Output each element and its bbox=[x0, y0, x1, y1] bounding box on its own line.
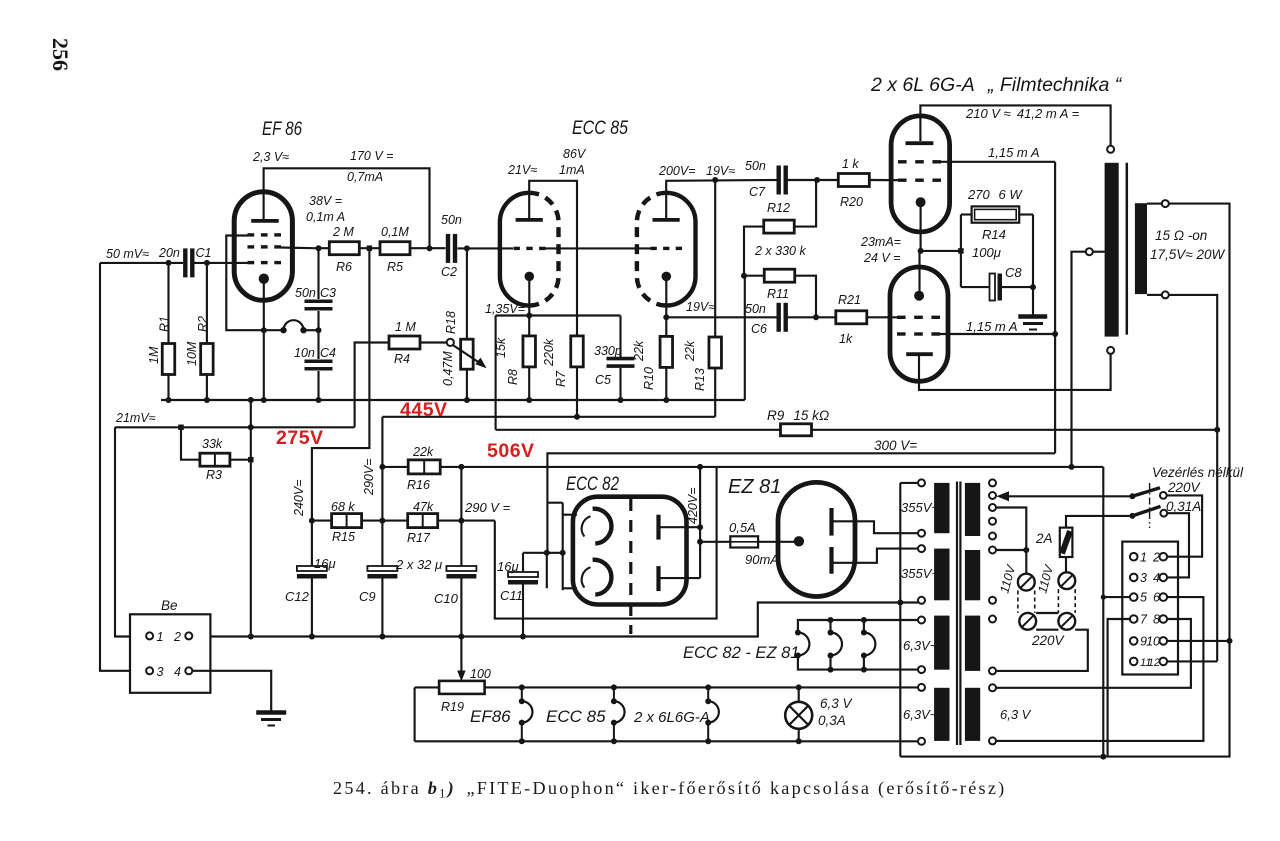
wire R5 to C2 bbox=[410, 247, 446, 249]
Be pin 4 bbox=[185, 667, 192, 674]
svg-text:1: 1 bbox=[157, 630, 164, 644]
svg-text:ECC 82 - EZ 81: ECC 82 - EZ 81 bbox=[683, 644, 799, 662]
svg-text:24 V =: 24 V = bbox=[863, 251, 901, 265]
svg-text:275V: 275V bbox=[276, 427, 324, 449]
svg-text:256: 256 bbox=[48, 38, 73, 71]
heater hook ECC82 bbox=[795, 630, 801, 636]
wire driver heater rail top bbox=[798, 620, 918, 633]
svg-text:2 x 6L 6G-A „ Filmtechnika “: 2 x 6L 6G-A „ Filmtechnika “ bbox=[870, 74, 1123, 96]
svg-text:170 V =: 170 V = bbox=[350, 149, 393, 163]
resistor R17 47k bbox=[382, 520, 408, 522]
wire input down to Be pin3 bbox=[100, 263, 146, 671]
svg-text:ECC 82: ECC 82 bbox=[566, 474, 619, 495]
svg-text:2 x 330 k: 2 x 330 k bbox=[754, 244, 806, 258]
6L6 lower g2 wire bbox=[936, 333, 1055, 335]
ECC85 left anode bbox=[516, 218, 543, 222]
svg-text:1,15 m A: 1,15 m A bbox=[966, 319, 1018, 334]
transformer OT secondary winding bbox=[1135, 203, 1147, 294]
ground at C8 bbox=[1032, 287, 1034, 314]
svg-text:50n: 50n bbox=[745, 302, 766, 316]
svg-text:C10: C10 bbox=[434, 591, 459, 606]
svg-text:220V: 220V bbox=[1167, 480, 1202, 495]
ECC85 right anode wire bbox=[666, 180, 777, 218]
voltage selector plugs lower 220V bbox=[1019, 613, 1036, 630]
wire R11 right to C6 node bbox=[795, 276, 816, 318]
ECC82 lower cathode arc bbox=[593, 560, 612, 595]
transformer PT secondary bars bbox=[934, 483, 949, 533]
resistor R13 22k bbox=[709, 337, 722, 368]
wire ECC85 right cathode node bbox=[666, 316, 777, 318]
EZ81 upper plate bbox=[829, 508, 833, 536]
wire R12 left bbox=[744, 227, 764, 276]
EZ81 lower plate bbox=[829, 547, 833, 574]
tube 6L6 lower (inverted) bbox=[890, 267, 948, 381]
svg-text:C1: C1 bbox=[196, 246, 212, 260]
wire 19V node down to R13 bbox=[714, 180, 716, 336]
wire 300V to grid bracket bbox=[547, 502, 563, 504]
OT secondary bottom terminal bbox=[1147, 294, 1162, 296]
OT primary bottom terminal bbox=[1107, 347, 1114, 354]
tube 6L6 upper bbox=[891, 116, 950, 232]
resistor R21 1k bbox=[836, 311, 867, 324]
svg-text:290 V =: 290 V = bbox=[464, 500, 511, 515]
6L6 upper anode lead to transformer bbox=[920, 105, 1110, 145]
resistor R6 2M bbox=[329, 242, 359, 255]
6L6 lower g1 dashes bbox=[897, 316, 906, 319]
svg-text:10M: 10M bbox=[185, 341, 199, 366]
OT secondary top terminal bbox=[1147, 203, 1162, 205]
switch mains upper pole bbox=[1129, 493, 1135, 499]
svg-text:220V: 220V bbox=[1031, 633, 1066, 648]
R14 C8 loop rails bbox=[960, 215, 962, 288]
ECC82 upper cathode arc bbox=[593, 509, 612, 544]
svg-text:EF 86: EF 86 bbox=[262, 119, 302, 140]
svg-text:C2: C2 bbox=[441, 265, 457, 279]
wire input to C1 bbox=[100, 262, 183, 264]
PT left tap terminals bbox=[918, 479, 925, 486]
wire secondary top to terminal 10 bbox=[900, 204, 1229, 757]
EF86 g2 wire to R6 bbox=[281, 246, 314, 249]
svg-text:2: 2 bbox=[173, 630, 181, 644]
svg-text:210 V ≈ 41,2 m A =: 210 V ≈ 41,2 m A = bbox=[965, 106, 1080, 121]
terminal 9 10 bbox=[1130, 637, 1138, 645]
svg-text:R12: R12 bbox=[767, 201, 790, 215]
wire R16-R17 junction vertical bbox=[460, 467, 462, 567]
capacitor C7 50n bbox=[777, 166, 781, 195]
resistor R16 22k bbox=[382, 466, 408, 468]
switch mains lower pole bbox=[1129, 513, 1135, 519]
wire R21 to lower 6L6 grid bbox=[867, 316, 903, 318]
ECC85 right grid dashes bbox=[651, 247, 657, 250]
svg-text:R13: R13 bbox=[693, 368, 707, 391]
svg-text:R10: R10 bbox=[642, 367, 656, 390]
tube EF86 bbox=[234, 192, 292, 300]
wire R9 feed from cathode node bbox=[495, 316, 497, 430]
Be pin 2 bbox=[185, 632, 192, 639]
svg-text:R3: R3 bbox=[206, 468, 222, 482]
wire OT center tap to supply bbox=[1072, 252, 1086, 467]
wire C7 to R20 bbox=[788, 179, 839, 181]
svg-text:22k: 22k bbox=[683, 340, 697, 362]
svg-text:90mA: 90mA bbox=[745, 552, 779, 567]
svg-text:2: 2 bbox=[1152, 550, 1160, 564]
heater hook EF86 bbox=[519, 684, 525, 690]
svg-text:R14: R14 bbox=[982, 227, 1006, 242]
svg-text:355V~: 355V~ bbox=[901, 500, 939, 515]
terminal 11 12 bbox=[1130, 658, 1138, 666]
EZ81 cathode dot bbox=[794, 536, 804, 546]
capacitor C3 50n bbox=[317, 248, 319, 299]
svg-text:C6: C6 bbox=[751, 322, 767, 336]
svg-text:445V: 445V bbox=[400, 399, 448, 421]
wire terminal 6 to 6.3V tap bbox=[996, 597, 1203, 741]
wire bus riser to R11 R12 bbox=[744, 276, 746, 400]
svg-text:200V=: 200V= bbox=[658, 164, 696, 178]
svg-text:38V =: 38V = bbox=[309, 194, 342, 208]
svg-text:C11: C11 bbox=[500, 588, 523, 603]
svg-text:C12: C12 bbox=[285, 589, 310, 604]
resistor R1 1M bbox=[167, 263, 169, 344]
wire EZ81 lower plate to 355V tap bbox=[834, 549, 919, 563]
ECC85 right cathode bbox=[662, 272, 672, 282]
capacitor C10 32u bbox=[446, 566, 476, 571]
svg-text:0,7mA: 0,7mA bbox=[347, 170, 383, 184]
svg-text:R1: R1 bbox=[158, 316, 172, 332]
wire selector return to 6.3V tap bbox=[996, 630, 1088, 671]
wire terminal 8 to 6.3V tap bbox=[996, 619, 1191, 688]
fuse 0.5A bbox=[700, 541, 730, 543]
svg-text:ECC 85: ECC 85 bbox=[572, 118, 628, 139]
wire down to Be pin1 bbox=[115, 427, 146, 636]
svg-text:R18: R18 bbox=[444, 311, 458, 334]
svg-text:EZ 81: EZ 81 bbox=[728, 476, 781, 498]
svg-text:50 mV≈: 50 mV≈ bbox=[106, 247, 149, 261]
6L6 upper cathode bbox=[916, 197, 926, 207]
svg-text:254. ábra b1) „FITE-Duophon“: 254. ábra b1) „FITE-Duophon“ iker-főerős… bbox=[333, 778, 1006, 801]
svg-text:2,3 V≈: 2,3 V≈ bbox=[252, 150, 289, 164]
wire cathodes junction bbox=[921, 250, 961, 252]
OT primary top terminal bbox=[1107, 146, 1114, 153]
svg-text:300 V=: 300 V= bbox=[874, 438, 917, 453]
svg-text:16μ: 16μ bbox=[314, 556, 336, 571]
capacitor C4 10n bbox=[317, 330, 319, 359]
svg-text:100μ: 100μ bbox=[972, 245, 1001, 260]
wire R4 left to 275V line bbox=[355, 343, 390, 428]
wire R20 to 6L6 grid bbox=[869, 179, 903, 181]
EF86 grid g2 dashes bbox=[248, 245, 255, 248]
EF86 grid g1 dashes bbox=[248, 261, 255, 264]
svg-text:6: 6 bbox=[1153, 591, 1160, 605]
svg-text:240V=: 240V= bbox=[292, 480, 306, 518]
terminal 1 2 bbox=[1130, 553, 1138, 561]
svg-text:2 x 32 μ: 2 x 32 μ bbox=[395, 557, 442, 572]
svg-text:4: 4 bbox=[174, 665, 181, 679]
svg-text:270 6 W: 270 6 W bbox=[967, 187, 1023, 202]
svg-text:20n: 20n bbox=[158, 246, 180, 260]
EF86 anode bbox=[251, 219, 279, 223]
wire Be pin4 to ground bbox=[192, 671, 271, 711]
svg-text:12: 12 bbox=[1148, 657, 1160, 669]
svg-text:420V=: 420V= bbox=[686, 488, 700, 525]
svg-text:10n: 10n bbox=[294, 346, 315, 360]
fuse 2A bbox=[1060, 528, 1073, 557]
svg-text:1 M: 1 M bbox=[395, 320, 416, 334]
wire 220V switch to terminal 2 bbox=[1167, 495, 1202, 556]
svg-text:330p: 330p bbox=[594, 344, 622, 358]
resistor R10 22k bbox=[665, 317, 667, 336]
svg-text:50n: 50n bbox=[745, 159, 766, 173]
capacitor C12 16u bbox=[311, 521, 313, 567]
resistor R4 1M bbox=[389, 336, 420, 349]
6L6 upper g2 dashes bbox=[898, 160, 907, 163]
svg-text:8: 8 bbox=[1153, 613, 1160, 627]
svg-text:6,3 V: 6,3 V bbox=[1000, 707, 1032, 722]
wire R11 left bbox=[744, 275, 764, 277]
svg-text:C7: C7 bbox=[749, 185, 766, 199]
svg-text:50n: 50n bbox=[295, 286, 316, 300]
svg-text:1M: 1M bbox=[147, 346, 161, 364]
capacitor C1 20n bbox=[183, 248, 187, 277]
wire 445V rail down to R16 R17 C9 bbox=[381, 417, 383, 567]
svg-text:355V~: 355V~ bbox=[901, 566, 939, 581]
svg-text:EF86: EF86 bbox=[470, 707, 511, 726]
capacitor C8 100u bbox=[961, 286, 990, 288]
svg-text:506V: 506V bbox=[487, 440, 535, 462]
svg-text:1 k: 1 k bbox=[842, 157, 859, 171]
svg-text:1,35V=: 1,35V= bbox=[485, 302, 525, 316]
svg-text:21V≈: 21V≈ bbox=[507, 163, 537, 177]
wire heater loop left bbox=[414, 687, 416, 741]
wire R4 to R18 wiper bbox=[420, 341, 447, 343]
svg-text:0,1m A: 0,1m A bbox=[306, 210, 345, 224]
resistor R5 0.1M bbox=[380, 242, 410, 255]
svg-text:6,3 V: 6,3 V bbox=[820, 696, 854, 711]
R19 wiper arrow bbox=[460, 637, 462, 674]
transformer OT primary winding bbox=[1105, 163, 1119, 337]
svg-text:0,3A: 0,3A bbox=[818, 713, 846, 728]
svg-text:R7: R7 bbox=[554, 370, 568, 387]
ECC85 left anode wire to R7 bbox=[529, 181, 577, 336]
wire EZ81 upper plate to 355V tap bbox=[834, 521, 919, 533]
ECC85 left grid dashes bbox=[514, 247, 520, 250]
tube EZ81 bbox=[778, 482, 855, 596]
resistor R15 68k bbox=[312, 520, 332, 522]
capacitor C9 32u bbox=[367, 566, 397, 571]
svg-text:21mV≈: 21mV≈ bbox=[115, 411, 156, 425]
svg-text:R15: R15 bbox=[332, 530, 355, 544]
capacitor C2 50n bbox=[446, 234, 450, 263]
wire terminal 5 to box edge bbox=[1103, 596, 1130, 598]
wire terminal 12 to feedback line bbox=[1167, 660, 1217, 662]
6L6 lower anode bbox=[906, 352, 933, 356]
svg-text:3: 3 bbox=[1140, 571, 1147, 585]
resistor R7 220k bbox=[571, 336, 584, 367]
Be pin 1 bbox=[146, 632, 153, 639]
wire ECC85 left cathode node bbox=[496, 314, 621, 316]
terminal 5 6 bbox=[1130, 593, 1138, 601]
svg-text:19V≈: 19V≈ bbox=[706, 164, 735, 178]
wire heater rail bottom bbox=[415, 740, 918, 742]
OT primary center tap bbox=[1086, 248, 1093, 255]
svg-text:68 k: 68 k bbox=[331, 500, 355, 514]
wire 290V feed from R6-R5 junction bbox=[312, 248, 370, 520]
svg-text:10: 10 bbox=[1146, 635, 1160, 649]
6L6 lower g2 dashes bbox=[897, 332, 906, 335]
terminal 7 8 bbox=[1130, 615, 1138, 623]
EF86 g3 left frame wire bbox=[226, 236, 263, 331]
heater hook third bbox=[863, 620, 865, 633]
capacitor C11 16u bbox=[523, 552, 547, 554]
svg-text:86V: 86V bbox=[563, 147, 587, 161]
wire ECC85 grids link bbox=[546, 247, 651, 249]
EF86 cathode bbox=[259, 274, 269, 284]
resistor R14 270 6W bbox=[961, 213, 972, 215]
svg-text:22k: 22k bbox=[632, 340, 646, 362]
resistor R3 33k bbox=[181, 427, 200, 459]
svg-text:C3: C3 bbox=[320, 286, 336, 300]
capacitor C5 330p bbox=[619, 316, 621, 358]
svg-text:50n: 50n bbox=[441, 213, 462, 227]
svg-text:Be: Be bbox=[161, 598, 178, 613]
resistor R8 15k bbox=[528, 316, 530, 337]
svg-text:R8: R8 bbox=[506, 369, 520, 385]
wire C6 to R21 bbox=[788, 316, 836, 318]
ECC85 left cathode bbox=[525, 272, 535, 282]
wire lower ground bus bbox=[192, 603, 918, 637]
svg-text:C8: C8 bbox=[1005, 265, 1022, 280]
ECC82 lower anode bar bbox=[656, 566, 660, 591]
wire supply box right edge bbox=[1102, 467, 1104, 757]
svg-text:6,3V~: 6,3V~ bbox=[903, 707, 938, 722]
voltage selector plug upper 110V bbox=[1018, 574, 1035, 591]
svg-text:C9: C9 bbox=[359, 589, 376, 604]
wire ground bus bbox=[161, 399, 745, 401]
tube ECC85 left triode bbox=[500, 193, 529, 306]
connector Be bbox=[130, 614, 210, 693]
transformer PT core bbox=[956, 482, 958, 746]
svg-text:47k: 47k bbox=[413, 500, 434, 514]
svg-text:5: 5 bbox=[1140, 591, 1147, 605]
wire 21mV line bbox=[115, 426, 355, 428]
EF86 grid g3 dashes bbox=[248, 233, 255, 236]
6L6 upper anode bbox=[906, 141, 934, 145]
ground symbol bbox=[256, 710, 286, 715]
transformer OT core bbox=[1126, 163, 1129, 335]
6L6 lower anode lead to transformer bbox=[919, 355, 1111, 390]
resistor R2 10M bbox=[206, 263, 208, 344]
terminal strip box bbox=[1122, 542, 1178, 675]
ECC82 shield dashed bbox=[629, 499, 632, 634]
svg-text:C4: C4 bbox=[320, 346, 336, 360]
wire 0.31A switch to terminal 4 bbox=[1167, 513, 1189, 577]
svg-text:2 x 6L6G-A: 2 x 6L6G-A bbox=[633, 709, 710, 726]
resistor R9 15k bbox=[496, 429, 781, 431]
cathode link arc bbox=[264, 329, 284, 331]
wire 445V rail bbox=[382, 416, 715, 418]
svg-text:R11: R11 bbox=[767, 287, 789, 301]
transformer PT primary bars bbox=[965, 483, 980, 536]
resistor R12 330k bbox=[764, 220, 795, 233]
pilot lamp 6.3V 0.3A bbox=[798, 687, 800, 702]
svg-text:1,15 m A: 1,15 m A bbox=[988, 145, 1040, 160]
wire vertical bus-to-lower-bus at x251 bbox=[250, 400, 252, 637]
svg-text:19V≈: 19V≈ bbox=[686, 300, 715, 314]
potentiometer R18 0.47M bbox=[447, 339, 454, 346]
svg-text:23mA=: 23mA= bbox=[860, 235, 901, 249]
ECC82 grid bracket bbox=[562, 503, 564, 591]
svg-text:4: 4 bbox=[1153, 571, 1160, 585]
svg-text:R2: R2 bbox=[196, 316, 210, 332]
selector dashed links bbox=[1017, 591, 1019, 613]
wire R12 right to C7 node bbox=[794, 180, 816, 227]
heater hook ECC85 bbox=[611, 684, 617, 690]
wire heater rail top bbox=[415, 686, 440, 688]
ECC85 right anode bbox=[653, 218, 680, 222]
capacitor C6 50n bbox=[777, 303, 781, 332]
svg-text:0,31A: 0,31A bbox=[1166, 499, 1201, 514]
svg-text:1k: 1k bbox=[839, 332, 853, 346]
switch link dash-dot bbox=[1149, 483, 1151, 528]
svg-text:R6: R6 bbox=[336, 260, 352, 274]
svg-text:290V=: 290V= bbox=[362, 459, 376, 497]
svg-text:0,47M: 0,47M bbox=[441, 351, 455, 386]
terminal 3 4 bbox=[1130, 574, 1138, 582]
wire secondary bottom to R9 line bbox=[1169, 295, 1217, 662]
svg-text:C5: C5 bbox=[595, 373, 611, 387]
svg-text:7: 7 bbox=[1140, 613, 1148, 627]
wire C2 to ECC85 grid bbox=[458, 247, 514, 249]
wire R16 output line to supply box bbox=[440, 466, 1103, 468]
wire tap3 to tap6 bbox=[996, 508, 1026, 574]
ECC82 upper anode bar bbox=[656, 515, 660, 540]
svg-text:2A: 2A bbox=[1035, 531, 1053, 546]
svg-text:0,5A: 0,5A bbox=[729, 520, 756, 535]
resistor R11 330k bbox=[764, 269, 795, 282]
potentiometer R19 100 bbox=[439, 681, 485, 694]
svg-text:6,3V~: 6,3V~ bbox=[903, 638, 938, 653]
svg-text:3: 3 bbox=[157, 665, 164, 679]
resistor R20 1k bbox=[838, 174, 869, 187]
svg-text:17,5V≈ 20W: 17,5V≈ 20W bbox=[1150, 247, 1225, 262]
svg-text:R20: R20 bbox=[840, 195, 863, 209]
EF86 anode lead to 170V line bbox=[264, 168, 430, 248]
svg-text:220k: 220k bbox=[542, 338, 556, 367]
svg-text:R21: R21 bbox=[838, 293, 861, 307]
wire driver heater rail bottom bbox=[798, 656, 918, 670]
Be pin 3 bbox=[146, 667, 153, 674]
tube ECC85 right triode bbox=[666, 193, 695, 306]
svg-text:15 Ω -on: 15 Ω -on bbox=[1155, 228, 1207, 243]
svg-text:R4: R4 bbox=[394, 352, 410, 366]
svg-text:R19: R19 bbox=[441, 700, 464, 714]
wire 300V line bbox=[547, 453, 1055, 552]
6L6 upper g1 dashes bbox=[898, 178, 907, 181]
voltage selector plug upper right 110V bbox=[1058, 572, 1075, 589]
wire 290V to ECC82 grids bbox=[495, 467, 717, 619]
svg-text:R5: R5 bbox=[387, 260, 403, 274]
wire terminal 10 to secondary bbox=[1167, 640, 1229, 642]
wire terminal 7 down bbox=[1108, 619, 1130, 757]
PT right tap terminals bbox=[989, 479, 996, 486]
wire ECC82 anodes to 420V bbox=[699, 467, 701, 578]
svg-text:R17: R17 bbox=[407, 531, 431, 545]
svg-text:R16: R16 bbox=[407, 478, 430, 492]
svg-text:2 M: 2 M bbox=[332, 225, 354, 239]
svg-text:100: 100 bbox=[470, 667, 491, 681]
svg-text:1: 1 bbox=[1140, 550, 1147, 564]
svg-text:0,1M: 0,1M bbox=[381, 225, 409, 239]
tube ECC82 bbox=[573, 497, 687, 605]
